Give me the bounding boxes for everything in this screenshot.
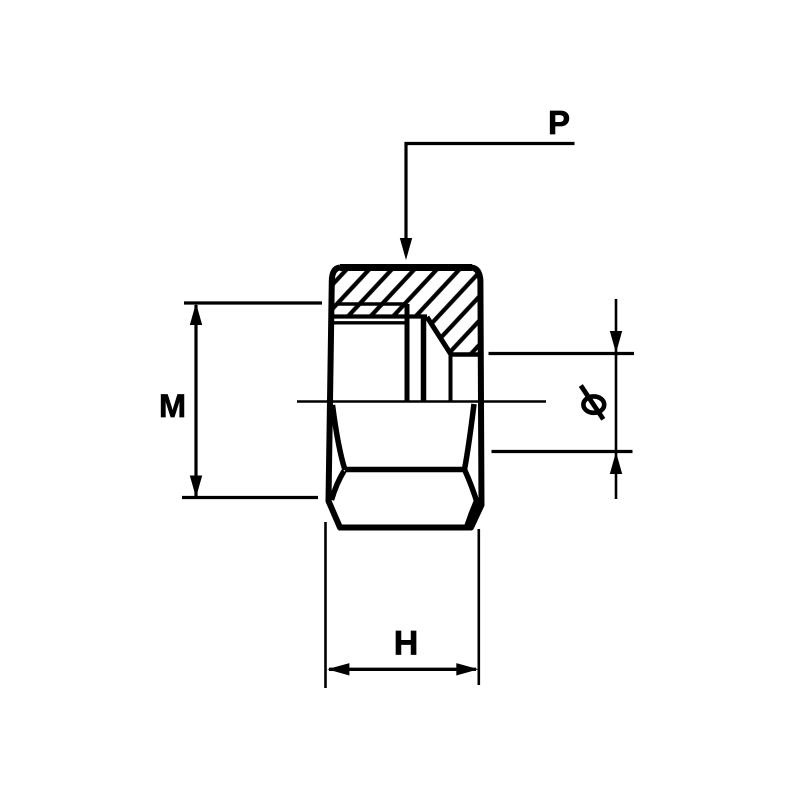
nut top edge (thick) — [340, 264, 472, 271]
diameter symbol — [581, 386, 604, 420]
thread runout line — [334, 321, 408, 324]
P leader line — [406, 144, 575, 243]
thread crest line — [333, 314, 427, 318]
nut outline — [329, 268, 482, 528]
left lower chamfer arc — [332, 471, 345, 500]
M bottom arrow — [190, 476, 202, 498]
H dimension line — [329, 668, 476, 671]
thread end line — [405, 304, 410, 402]
counterbore line — [421, 317, 427, 402]
bottom right corner fill — [464, 496, 482, 528]
cone line — [427, 317, 451, 355]
diameter bottom arrow — [610, 452, 622, 474]
H left arrow — [327, 663, 349, 675]
svg-text:P: P — [548, 104, 570, 141]
M bottom extension line — [182, 496, 318, 499]
M top extension line — [184, 301, 322, 304]
right chamfer arc — [465, 404, 475, 470]
left chamfer arc — [333, 405, 346, 470]
svg-text:H: H — [394, 625, 419, 663]
H left extension line — [324, 522, 327, 688]
right lower chamfer arc — [465, 470, 478, 505]
svg-text:M: M — [159, 388, 186, 424]
hex flat line — [345, 467, 465, 473]
thread root line — [337, 302, 408, 306]
hatch section region — [333, 268, 481, 355]
centerline — [297, 400, 546, 402]
M dimension line — [194, 305, 197, 496]
H right extension line — [477, 529, 480, 685]
diameter top extension line — [489, 352, 635, 355]
bore edge line — [449, 355, 453, 402]
diameter top arrow — [610, 331, 622, 353]
P arrow — [400, 238, 412, 260]
M top arrow — [190, 303, 202, 325]
bore line — [450, 352, 481, 357]
H right arrow — [456, 663, 478, 675]
diameter dimension line — [615, 299, 618, 499]
diameter bottom extension line — [492, 450, 633, 453]
